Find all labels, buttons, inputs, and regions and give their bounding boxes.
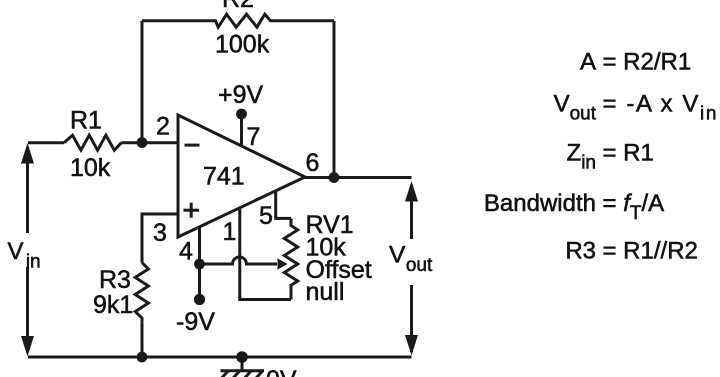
svg-text:4: 4 [179, 238, 193, 266]
svg-text:Vout: Vout [554, 91, 597, 125]
label +9V [218, 81, 264, 109]
node output junction [329, 172, 340, 183]
wire ground rail [28, 356, 412, 359]
label R3 [99, 266, 131, 294]
svg-text:A: A [580, 49, 596, 76]
wire output [305, 176, 412, 179]
pin 2 label [156, 113, 170, 141]
node pin 4 [194, 259, 205, 270]
op-amp U1 (741) [178, 115, 305, 237]
node ground junction [236, 351, 248, 363]
svg-text:= R1//R2: = R1//R2 [603, 238, 698, 265]
equation Vout = -A x Vin [554, 91, 718, 125]
svg-text:R3: R3 [565, 238, 596, 265]
resistor R2 [142, 14, 334, 27]
node R3 ground [137, 352, 148, 363]
svg-text:7: 7 [247, 123, 261, 151]
value 100k [215, 31, 270, 59]
pin 1 label [223, 218, 237, 246]
label Offset [306, 256, 372, 284]
svg-text:R2: R2 [222, 0, 254, 13]
wire wiper with hop [200, 257, 278, 264]
label Vout [389, 242, 433, 277]
svg-text:3: 3 [153, 219, 167, 247]
svg-text:1: 1 [223, 218, 237, 246]
wire input [28, 141, 64, 144]
resistor R3 [135, 263, 148, 323]
pin 5 label [259, 202, 273, 230]
svg-text:100k: 100k [215, 31, 270, 59]
svg-text:= fT/A: = fT/A [603, 190, 665, 224]
svg-text:= R2/R1: = R2/R1 [603, 49, 692, 76]
svg-text:0V: 0V [266, 366, 297, 377]
value 9k1 [93, 291, 133, 319]
ground [219, 357, 264, 377]
wire feedback left vertical [141, 21, 144, 143]
value 10k [70, 154, 111, 182]
wire pin 4 [198, 227, 201, 300]
svg-text:Vout: Vout [389, 242, 433, 277]
svg-text:2: 2 [156, 113, 170, 141]
wire R3 to ground rail [141, 322, 144, 357]
equation Bandwidth = fT/A [484, 190, 664, 224]
equation Zin = R1 [567, 140, 654, 174]
value 10k [306, 234, 347, 262]
svg-text:6: 6 [306, 149, 320, 177]
label Vin [8, 238, 41, 273]
Vin arrow line [26, 147, 29, 352]
Vout arrowhead down [405, 335, 418, 356]
terminal dot +9V [236, 109, 247, 120]
label R2 [222, 0, 254, 13]
wire pin 1 [240, 208, 291, 300]
terminal dot -9V [194, 294, 205, 305]
svg-text:9k1: 9k1 [93, 291, 133, 319]
svg-text:Zin: Zin [567, 140, 596, 174]
equation A = R2/R1 [580, 49, 691, 76]
Vin arrowhead up [21, 143, 34, 164]
Vout arrow line [410, 185, 413, 352]
svg-text:741: 741 [203, 163, 245, 191]
svg-text:10k: 10k [70, 154, 111, 182]
label R1 [70, 106, 102, 134]
wire feedback right vertical [333, 21, 336, 178]
Vin arrowhead down [21, 336, 34, 357]
node A (inverting input junction) [137, 137, 148, 148]
svg-text:+9V: +9V [218, 81, 264, 109]
svg-text:= R1: = R1 [603, 140, 654, 167]
label -9V [176, 308, 215, 336]
Vout arrowhead up [405, 181, 418, 202]
pin 3 label [153, 219, 167, 247]
label RV1 [306, 211, 354, 239]
equation R3 = R1//R2 [565, 238, 698, 265]
wiper arrowhead [278, 258, 288, 269]
svg-text:R1: R1 [70, 106, 102, 134]
wire pin 7 supply [240, 114, 243, 147]
svg-text:Bandwidth: Bandwidth [484, 190, 596, 217]
svg-text:null: null [306, 278, 345, 306]
wire pin 3 to R3 [142, 214, 178, 263]
svg-text:5: 5 [259, 202, 273, 230]
pin 4 label [179, 238, 193, 266]
resistor R1 [64, 135, 121, 150]
label null [306, 278, 345, 306]
wire R1 to node [121, 141, 178, 144]
minus sign (inverting input) [185, 144, 200, 147]
svg-text:Vin: Vin [8, 238, 41, 273]
svg-text:-9V: -9V [176, 308, 215, 336]
pin 7 label [247, 123, 261, 151]
label 741 [203, 163, 245, 191]
potentiometer RV1 [284, 218, 297, 299]
pin 6 label [306, 149, 320, 177]
plus sign (non-inverting input) [184, 203, 200, 218]
svg-text:= -A x Vin: = -A x Vin [603, 91, 719, 125]
svg-text:R3: R3 [99, 266, 131, 294]
wire pin 5 [276, 191, 291, 218]
label 0V [266, 366, 297, 377]
